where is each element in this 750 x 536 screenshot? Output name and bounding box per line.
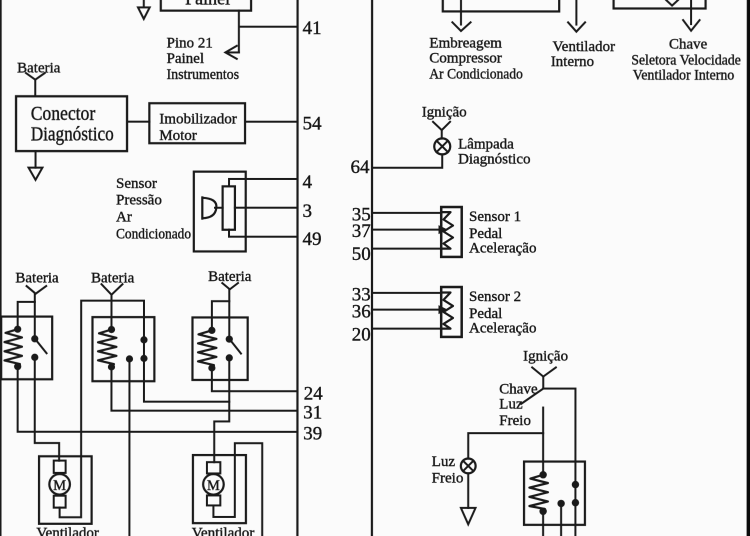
svg-text:64: 64: [351, 157, 371, 178]
relay 1 coil terminal dots: [14, 326, 21, 333]
svg-text:41: 41: [303, 18, 322, 39]
svg-text:Ventilador Interno: Ventilador Interno: [633, 67, 735, 83]
battery connector V (relay 2): [101, 284, 122, 295]
battery connector V (relay 3): [222, 283, 238, 289]
ignition connector V (chave luz freio): [532, 367, 556, 376]
relay 2 middle contact dot: [126, 355, 133, 362]
svg-text:Conector: Conector: [31, 103, 96, 125]
svg-text:Chave: Chave: [669, 37, 708, 53]
motor 1 body: [49, 474, 70, 495]
relay 3 coil terminal dots: [208, 327, 215, 334]
relay 4 coil: [529, 475, 548, 512]
svg-text:Sensor 1: Sensor 1: [469, 209, 521, 225]
wire relay 3 coil to pin 24: [212, 368, 297, 391]
ECU connector left rail: [296, 0, 298, 536]
ground symbol luz freio: [461, 508, 476, 524]
wiper arrowhead sensor 2: [438, 305, 447, 314]
sensor element rectangle: [223, 186, 235, 229]
svg-text:36: 36: [352, 301, 371, 322]
relay 4 contact dots: [572, 481, 579, 488]
motor 1 top terminal: [54, 461, 66, 473]
ground symbol top-left: [138, 7, 150, 19]
wire transducer to element: [215, 207, 223, 209]
arrowhead embreagem: [452, 22, 470, 31]
svg-text:Instrumentos: Instrumentos: [167, 67, 240, 83]
wire bateria 2 to relay 2 coil: [110, 295, 112, 330]
svg-text:Bateria: Bateria: [91, 271, 135, 287]
branch wire to relay 1 coil: [18, 302, 35, 329]
conector diagnostico box: [16, 96, 127, 151]
svg-text:Imobilizador: Imobilizador: [159, 112, 236, 128]
svg-text:Compressor: Compressor: [429, 51, 502, 67]
wire bateria to conector box: [34, 80, 36, 97]
imobilizador motor box: [149, 103, 245, 143]
relay 1 coil: [4, 329, 22, 366]
wire pin 37 to sensor 1 wiper: [372, 229, 439, 231]
svg-text:Ventilador: Ventilador: [192, 525, 254, 536]
battery connector V (conector diagnostico): [26, 73, 45, 80]
svg-text:Painel: Painel: [185, 0, 230, 8]
svg-text:31: 31: [303, 402, 322, 423]
wire lamp to ground: [467, 473, 469, 508]
svg-text:Ventilador: Ventilador: [553, 39, 615, 55]
relay 2 coil terminal dots: [108, 326, 115, 333]
sensor pressao ar condicionado box: [194, 172, 246, 252]
wire pin 35 to sensor 1: [372, 212, 441, 214]
svg-text:Diagnóstico: Diagnóstico: [31, 123, 114, 145]
box chave seletora (cut off at top): [614, 0, 706, 9]
branch wire to relay 3 coil: [212, 301, 229, 330]
wire relay 1 switch to motor 1: [35, 357, 59, 460]
svg-text:Bateria: Bateria: [208, 269, 252, 285]
motor 1 bottom terminal: [54, 496, 66, 508]
wire imobilizador to pin 54: [245, 121, 297, 123]
wire motor 2 return to bottom edge: [213, 443, 262, 536]
svg-text:Luz: Luz: [432, 454, 456, 470]
box embreagem source (cut off at top): [443, 0, 559, 11]
svg-text:Bateria: Bateria: [15, 270, 59, 286]
wiper arrowhead sensor 1: [439, 225, 448, 234]
arrow to pino 21 painel instrumentos: [225, 46, 239, 59]
wire relay 2 middle contact down to edge: [128, 359, 130, 536]
svg-text:39: 39: [303, 423, 322, 444]
arrowhead chave seletora: [683, 20, 700, 31]
wire pin 33 to sensor 2: [372, 292, 441, 294]
wire ventilador interno arrow: [575, 0, 577, 24]
svg-text:Ignição: Ignição: [422, 105, 467, 121]
scan border right: [747, 0, 750, 536]
svg-text:Motor: Motor: [159, 128, 197, 144]
wire painel box to pin 41 and down to arrow: [239, 11, 297, 53]
svg-text:Chave: Chave: [499, 382, 538, 398]
svg-text:Bateria: Bateria: [17, 60, 61, 76]
relay 3 coil: [198, 330, 217, 368]
lamp diagnostico: [434, 138, 450, 154]
relay 3 switch blade: [230, 340, 241, 354]
svg-text:Sensor: Sensor: [116, 176, 157, 192]
svg-text:20: 20: [352, 324, 371, 345]
wire relay 2 contact to motor 2 feed: [144, 358, 229, 401]
svg-text:Pedal: Pedal: [469, 306, 502, 322]
relay 4 box: [524, 462, 585, 525]
wire relay 4 contact down to edge: [574, 485, 576, 536]
sensor 2 box: [441, 287, 462, 337]
svg-text:24: 24: [304, 383, 324, 404]
wire relay 3 switch to motor 2: [214, 358, 229, 462]
svg-text:M: M: [53, 478, 66, 494]
wire pin 20 to sensor 2: [372, 328, 441, 330]
wire chave lower to relay 4 coil: [542, 408, 544, 475]
wire bateria 3 to relay 3 switch contact: [228, 289, 230, 339]
svg-text:Lâmpada: Lâmpada: [458, 137, 514, 153]
svg-text:37: 37: [352, 221, 371, 242]
wire relay 1 coil to pin 39: [18, 367, 297, 432]
wire ignicao to chave: [542, 377, 544, 389]
ECU connector right rail: [371, 0, 373, 536]
svg-text:Sensor 2: Sensor 2: [469, 289, 521, 305]
svg-text:Ventilador: Ventilador: [36, 525, 98, 536]
wire to pin 49: [229, 230, 297, 237]
wire ignicao to lamp: [441, 130, 443, 139]
relay 2 coil: [98, 330, 117, 367]
relay 1 box: [1, 317, 52, 380]
svg-text:Diagnóstico: Diagnóstico: [458, 152, 531, 168]
wire relay 4 middle contact down to edge: [560, 503, 562, 536]
relay 2 box: [92, 317, 154, 381]
svg-text:Ar: Ar: [116, 210, 132, 226]
sensor 2 resistance track: [442, 293, 453, 329]
motor 1 ventilador box: [39, 456, 92, 524]
box painel (cut off at top): [161, 0, 251, 11]
battery connector V (relay 1): [27, 286, 47, 294]
wire motor 1 return loop to relay 2 contact: [60, 301, 144, 518]
wire to pin 4: [229, 179, 297, 186]
motor 2 body: [203, 474, 224, 495]
svg-text:Embreagem: Embreagem: [429, 36, 502, 52]
wire embreagem arrow: [460, 0, 462, 24]
pressure transducer D shape: [202, 197, 216, 218]
wire chave seletora arrow: [690, 0, 692, 24]
ground symbol under conector: [29, 168, 43, 180]
motor 2 ventilador box: [193, 455, 246, 523]
svg-text:49: 49: [303, 229, 322, 250]
relay 1 switch contact dots: [31, 335, 38, 342]
wire relay 4 coil down to edge: [542, 511, 544, 536]
relay 3 switch contact dots: [226, 336, 233, 343]
relay 4 coil terminal dots: [539, 471, 546, 478]
wire relay 2 coil to pin 31: [111, 367, 297, 411]
svg-text:Seletora Velocidade: Seletora Velocidade: [631, 53, 741, 69]
svg-text:M: M: [207, 478, 220, 494]
wire lamp to pin 64: [372, 154, 442, 167]
svg-text:Aceleração: Aceleração: [469, 241, 536, 257]
svg-text:Freio: Freio: [432, 470, 464, 486]
relay 1 switch blade: [35, 339, 46, 353]
svg-text:Aceleração: Aceleração: [469, 321, 536, 337]
wire chave to relay 4 contact: [543, 389, 575, 485]
wire to pin 3: [235, 207, 297, 209]
relay 4 middle contact dot: [557, 500, 564, 507]
ignition connector V (lamp): [433, 122, 450, 130]
svg-text:50: 50: [352, 244, 371, 265]
svg-text:4: 4: [303, 172, 313, 193]
relay 3 box: [192, 317, 247, 380]
svg-text:Pedal: Pedal: [469, 226, 502, 242]
svg-text:Ar Condicionado: Ar Condicionado: [429, 67, 523, 83]
wire conector box to ground: [35, 151, 37, 168]
chave luz freio blade: [521, 389, 543, 404]
svg-text:Ignição: Ignição: [523, 349, 568, 365]
motor 2 bottom terminal: [207, 495, 220, 505]
wire bateria 1 to relay 1 switch contact: [34, 294, 36, 339]
svg-text:Condicionado: Condicionado: [116, 227, 191, 243]
branch wire to luz freio lamp: [468, 433, 543, 459]
svg-text:3: 3: [303, 201, 313, 222]
sensor 1 resistance track: [443, 212, 454, 249]
svg-text:Interno: Interno: [551, 54, 594, 70]
lamp luz freio: [461, 459, 476, 474]
wire pin 36 to sensor 2 wiper: [372, 309, 439, 311]
svg-text:Luz: Luz: [499, 397, 523, 413]
sensor 1 box: [441, 207, 462, 257]
svg-text:Pressão: Pressão: [116, 192, 162, 208]
svg-text:54: 54: [303, 113, 323, 134]
arrowhead remnant inside chave seletora box: [665, 0, 679, 6]
svg-text:Painel: Painel: [167, 51, 205, 67]
motor 2 top terminal: [207, 462, 220, 473]
svg-text:Pino 21: Pino 21: [167, 35, 213, 51]
scan border left: [0, 0, 2, 536]
wire conector to imobilizador: [127, 121, 149, 123]
arrowhead ventilador interno: [568, 22, 585, 31]
wire pin 50 to sensor 1: [372, 248, 441, 250]
relay 2 contact dots and link: [143, 340, 145, 359]
ground stub top-left: [143, 0, 145, 7]
svg-text:Freio: Freio: [499, 413, 531, 429]
